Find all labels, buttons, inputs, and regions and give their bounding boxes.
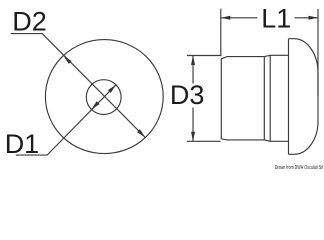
outer circle (front view, D2) [45,40,163,154]
arrowhead D1 upper-right [108,85,116,93]
arrowhead L1 right [309,16,319,20]
step edge line 1 [263,57,265,140]
wire: D3 bottom extension line [187,140,221,142]
wire: D3 dimension line top segment [192,56,194,84]
wire: L1 dimension line left segment [221,17,257,19]
svg-text:D1: D1 [5,129,40,159]
inner circle (front view hole, D1) [86,80,121,115]
svg-text:D2: D2 [12,6,47,36]
arrowhead L1 left [221,16,231,20]
svg-text:L1: L1 [261,4,291,34]
wire: D2 leader + dimension line [11,34,145,138]
arrowhead D3 bottom [191,132,195,142]
arrowhead D2 lower-right [137,129,145,137]
arrowhead D2 upper-left [64,56,72,64]
dome cap face [288,39,290,155]
svg-text:D3: D3 [170,80,205,110]
arrowhead D3 top [191,56,195,66]
dome cap outline [289,39,319,155]
wire: L1 dimension line right segment [295,17,319,19]
plug body outline (side view) [221,55,288,141]
wire: D3 top extension line [187,55,221,57]
wire: D1 leader + dimension line [16,85,116,155]
wire: D3 dimension line bottom segment [192,108,194,142]
wire: L1 right extension line [317,9,319,96]
step edge line 2 [269,55,271,141]
arrowhead D1 lower-left [91,101,99,109]
svg-text:Drawn from DWH Osculati Srl: Drawn from DWH Osculati Srl [275,165,324,171]
wire: L1 left extension line [220,9,222,56]
